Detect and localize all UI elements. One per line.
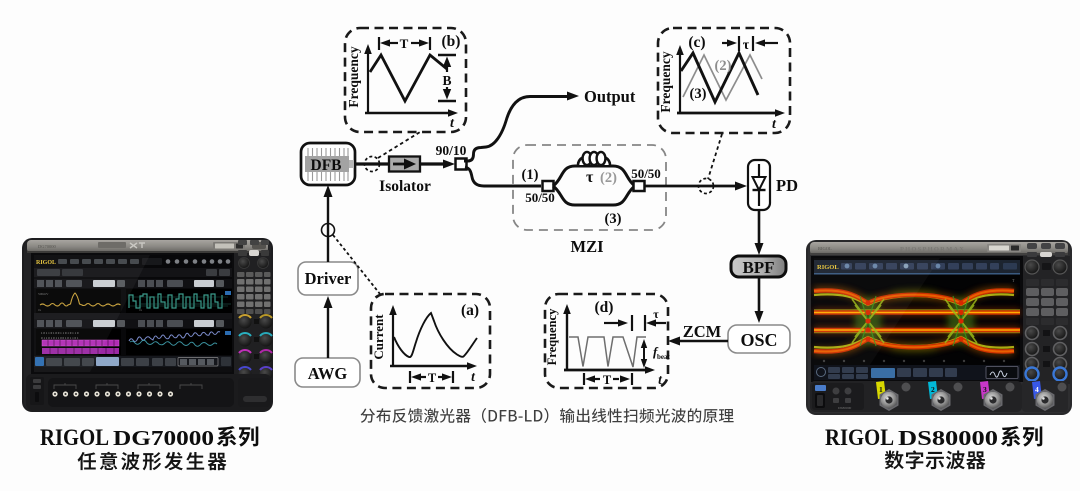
left screen panel 2L: magenta digital bars <box>36 329 121 355</box>
svg-text:Frequency: Frequency <box>545 308 559 365</box>
svg-text:PHOSPHORMAX: PHOSPHORMAX <box>900 246 965 253</box>
svg-text:(a): (a) <box>461 302 479 319</box>
left instrument colored knob rows <box>239 315 273 381</box>
svg-text:(d): (d) <box>595 299 614 316</box>
svg-text:DS80000: DS80000 <box>898 426 998 450</box>
svg-text:(2): (2) <box>600 170 617 186</box>
svg-text:DG70000: DG70000 <box>113 426 214 450</box>
90/10 coupler <box>436 143 467 170</box>
inset (c) dashed box <box>658 28 790 133</box>
left screen panel 2R: cyan noisy wave <box>126 329 232 355</box>
arrowhead into BPF <box>755 243 764 255</box>
dashed leader line from tap circle to inset (a) <box>333 235 380 294</box>
left caption line 1 <box>40 425 214 450</box>
wire BPF to OSC <box>758 277 761 314</box>
svg-text:DS80000: DS80000 <box>838 406 851 410</box>
BNC channel 4 <box>1032 381 1067 411</box>
svg-text:BPF: BPF <box>742 258 774 277</box>
dashed tap circle before PD <box>699 179 714 194</box>
svg-text:RIGOL: RIGOL <box>40 425 109 450</box>
arrowhead into PD <box>735 182 747 191</box>
inset (d) beat waveform <box>569 337 646 367</box>
svg-text:Current: Current <box>371 314 386 360</box>
svg-text:Frequency: Frequency <box>658 51 673 112</box>
svg-text:(2): (2) <box>715 58 732 74</box>
svg-text:50/50: 50/50 <box>525 190 555 205</box>
oscilloscope OSC block <box>728 325 790 353</box>
svg-text:τ: τ <box>743 38 750 53</box>
dashed leader line from inset (c) to tap circle <box>708 134 722 179</box>
left caption line 2 <box>78 452 227 471</box>
right instrument right control panel <box>1023 243 1070 384</box>
svg-text:PD: PD <box>776 176 798 195</box>
photodiode PD <box>748 160 798 210</box>
svg-text:RIGOL: RIGOL <box>825 425 894 450</box>
tap circle on driver wire <box>322 224 335 237</box>
svg-text:τ: τ <box>586 169 594 186</box>
MZI lower arm (3) <box>553 186 635 205</box>
dashed leader line from tap circle to inset (b) <box>378 132 420 158</box>
svg-text:(3): (3) <box>690 86 707 102</box>
arrowhead output <box>567 92 579 101</box>
svg-text:Output: Output <box>584 87 636 106</box>
AWG block <box>295 358 360 387</box>
arrowhead into DFB <box>324 185 333 197</box>
BNC channel 2 <box>928 381 963 411</box>
BNC channel 3 <box>980 381 1015 411</box>
svg-text:Isolator: Isolator <box>379 178 431 195</box>
svg-text:(1): (1) <box>522 167 539 183</box>
svg-text:Driver: Driver <box>305 269 352 288</box>
right instrument lower front panel with BNC connectors <box>810 381 1068 412</box>
band-pass filter BPF <box>731 256 786 277</box>
inset (a) dashed box <box>371 294 490 388</box>
inset (a) axes <box>371 305 477 384</box>
inset (c) tau measure <box>722 36 778 53</box>
svg-text:(3): (3) <box>605 211 622 227</box>
inset (a) T measure <box>410 371 453 385</box>
svg-text:(b): (b) <box>442 33 461 50</box>
left screen waveform panel 1R: teal square wave <box>126 289 232 313</box>
inset (b) triangle waveform <box>370 55 447 101</box>
right screen status bar <box>814 365 1020 380</box>
svg-text:AWG: AWG <box>308 364 348 383</box>
right screen eye diagram <box>814 275 1020 365</box>
right instrument: RIGOL DS80000 oscilloscope photo <box>806 240 1072 415</box>
inset (c) axes <box>658 45 785 132</box>
wire Driver to DFB <box>327 193 329 262</box>
right screen sheen <box>814 258 940 380</box>
svg-text:beat: beat <box>657 353 671 361</box>
fiber wire 90/10 to MZI input <box>465 167 541 186</box>
svg-text:T: T <box>428 371 437 385</box>
right caption line 1 <box>825 425 998 450</box>
svg-text:4: 4 <box>1035 385 1039 394</box>
right caption line 2 <box>885 450 986 469</box>
inset (d) axes <box>545 304 663 387</box>
svg-text:1: 1 <box>879 385 883 394</box>
arrowhead into Driver <box>324 296 333 308</box>
inset (d) T measure <box>584 373 632 387</box>
svg-text:OSC: OSC <box>740 330 777 350</box>
svg-text:RIGOL: RIGOL <box>818 246 832 251</box>
wire AWG to Driver <box>327 304 329 358</box>
left instrument right control panel <box>234 240 271 374</box>
svg-text:T: T <box>603 373 612 387</box>
left instrument screen <box>31 253 238 374</box>
wire DFB to isolator to 90/10 coupler <box>355 162 446 165</box>
Driver block <box>298 262 358 295</box>
svg-text:T: T <box>400 36 409 51</box>
svg-text:(c): (c) <box>688 34 705 51</box>
DFB laser block <box>301 143 355 185</box>
svg-text:3: 3 <box>983 385 987 394</box>
inset (d) dashed box <box>545 294 668 388</box>
inset (a) current waveform <box>394 313 477 357</box>
left screen mid divider <box>34 313 232 328</box>
svg-text:2: 2 <box>931 385 935 394</box>
arrowhead into 90/10 coupler <box>443 160 455 169</box>
svg-text:50/50: 50/50 <box>631 166 661 181</box>
left screen waveform panel 1L: amber pulse <box>36 289 121 313</box>
arrowhead into OSC <box>755 311 764 323</box>
right 50/50 coupler <box>631 166 661 191</box>
left screen sheen <box>34 255 150 372</box>
output fiber wire <box>464 97 570 162</box>
svg-text:ZCM: ZCM <box>683 322 722 341</box>
inset (c) black waveform (3) <box>681 53 758 102</box>
left screen bottom toolbar <box>34 356 232 372</box>
svg-text:τ: τ <box>653 307 659 321</box>
wire PD to BPF <box>758 210 761 246</box>
svg-text:DFB: DFB <box>311 157 342 174</box>
caption: principle of DFB-LD linear swept light output <box>361 408 734 423</box>
svg-text:DG70000: DG70000 <box>38 244 56 249</box>
inset (d) tau measure <box>604 307 666 331</box>
inset (d) f_beat measure <box>641 339 671 368</box>
inset (b) T measure <box>379 36 430 51</box>
left 50/50 coupler <box>525 181 555 205</box>
svg-text:MZI: MZI <box>571 237 604 256</box>
left instrument lower front panel <box>26 374 271 410</box>
fiber delay coil on upper arm <box>578 152 610 165</box>
arrowhead into inset (d) <box>668 337 680 346</box>
inset (c) gray delayed waveform (2) <box>683 55 762 100</box>
right instrument knob grid <box>1026 327 1067 390</box>
right instrument screen <box>811 256 1023 382</box>
svg-text:Frequency: Frequency <box>346 46 361 107</box>
inset (b) dashed box <box>345 28 466 132</box>
left instrument: RIGOL DG70000 AWG photo <box>22 238 273 412</box>
dashed tap circle after DFB <box>365 157 380 172</box>
inset (b) B measure <box>438 55 456 101</box>
isolator <box>379 157 431 196</box>
BNC channel 1 <box>876 381 911 411</box>
wire MZI to PD <box>645 185 738 188</box>
MZI upper arm (2) <box>553 166 635 186</box>
inset (b) axes <box>346 44 458 131</box>
wire OSC to inset (d) <box>677 340 728 342</box>
MZI dashed box <box>513 145 666 230</box>
svg-text:B: B <box>442 73 451 88</box>
svg-text:90/10: 90/10 <box>436 143 467 158</box>
